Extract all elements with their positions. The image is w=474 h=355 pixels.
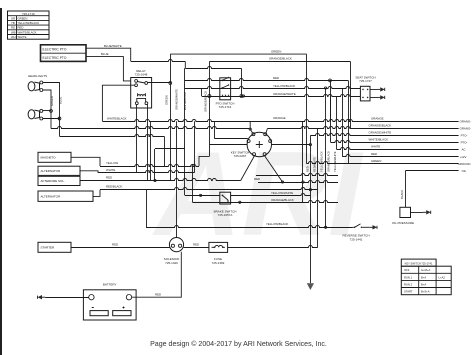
wire blue wire run [60, 135, 165, 137]
svg-text:725-0267: 725-0267 [234, 154, 247, 158]
wire orange/black drop [350, 61, 352, 128]
svg-text:B+A: B+A [421, 275, 426, 279]
battery [83, 290, 136, 320]
svg-text:ORANGE/BLACK: ORANGE/BLACK [271, 198, 294, 202]
svg-text:BLUE/WHITE: BLUE/WHITE [104, 44, 122, 48]
svg-text:725-1648: 725-1648 [135, 73, 148, 77]
wire pto left drop [209, 61, 211, 156]
svg-text:ORANGE: ORANGE [371, 116, 384, 120]
wire yellow/black wire [146, 226, 353, 228]
wire brake left v [192, 166, 194, 202]
connector seat conn b [377, 96, 380, 98]
wire v194 [194, 121, 196, 173]
wire bundle v317 [317, 129, 319, 248]
wire blue/white wire [86, 48, 131, 61]
node node pto right [242, 95, 244, 97]
svg-text:+12V: +12V [460, 155, 467, 159]
wire h4b wire [231, 194, 310, 196]
wire solenoid riser [176, 121, 178, 237]
oil pressure switch [400, 207, 411, 217]
svg-text:GREEN: GREEN [164, 95, 168, 105]
svg-text:YELLOW/BLACK: YELLOW/BLACK [18, 21, 40, 25]
wire v214 [214, 121, 216, 138]
wire bundle v348 [348, 80, 350, 163]
svg-text:ORANGE/BLACK: ORANGE/BLACK [203, 91, 207, 112]
wire z-drop [184, 61, 186, 68]
svg-text:L+A2: L+A2 [439, 275, 446, 279]
node node y80 [329, 79, 332, 82]
wire blue drop [164, 136, 166, 166]
wire h1 wire [256, 174, 338, 176]
svg-text:ORANG-: ORANG- [460, 127, 472, 131]
wire bundle v325 [325, 88, 327, 227]
svg-text:RED/BLACK: RED/BLACK [106, 184, 122, 188]
page border [0, 8, 2, 355]
wire blue wire [86, 57, 131, 81]
svg-text:YELLOW/WHITE: YELLOW/WHITE [333, 151, 337, 172]
wire alt2 redblack [93, 190, 100, 197]
wire green headlight wire [51, 127, 249, 129]
wire seat wire a [185, 87, 360, 89]
svg-text:GR: GR [11, 16, 15, 20]
node node relay out [169, 82, 172, 85]
svg-text:RUN 1: RUN 1 [404, 275, 413, 279]
wire red/black engine wire [100, 188, 318, 190]
node node h5 [239, 201, 241, 203]
svg-text:WHITE: WHITE [106, 168, 115, 172]
node node y88 [325, 87, 327, 89]
svg-text:GREEN: GREEN [18, 16, 28, 20]
wire key a wire [272, 144, 311, 146]
node node h2b [302, 181, 304, 183]
svg-text:RED: RED [305, 166, 309, 172]
wire relay left [102, 85, 134, 121]
svg-text:MAGNETO: MAGNETO [41, 156, 57, 160]
svg-text:RED: RED [106, 175, 112, 179]
wire wire y68 [185, 67, 241, 69]
wire fuse out wire [228, 246, 318, 248]
svg-text:725-1657A: 725-1657A [218, 213, 233, 217]
svg-text:RED: RED [254, 177, 260, 181]
wire solenoid to fuse [184, 247, 209, 249]
wire white/black right wire [331, 141, 459, 143]
svg-text:BLACK: BLACK [400, 190, 404, 199]
connector oil conn [423, 211, 426, 213]
node node key a [309, 144, 311, 146]
node junction green [50, 110, 53, 113]
wire wire y148 [155, 148, 185, 150]
afterfire solenoid [38, 176, 80, 185]
wire red right wire [343, 155, 459, 157]
svg-text:HEADLIGHTS: HEADLIGHTS [28, 74, 47, 78]
fuse F1 [209, 242, 228, 252]
wire green top wire [170, 53, 306, 55]
wire h2 wire [258, 181, 338, 183]
svg-text:ORANGE/WHITE: ORANGE/WHITE [369, 131, 392, 135]
headlight lamp [28, 81, 43, 92]
svg-text:YB: YB [11, 21, 15, 25]
relay K1 [131, 78, 152, 109]
wire ground drop [310, 145, 312, 284]
node node h3 [309, 189, 311, 191]
svg-text:BLUE: BLUE [58, 97, 62, 104]
svg-text:GREEN: GREEN [271, 50, 281, 54]
svg-text:WHITE/BLACK: WHITE/BLACK [369, 138, 389, 142]
svg-text:725-1716: 725-1716 [219, 105, 232, 109]
wire red wire [80, 179, 241, 181]
svg-text:YELLOW/BLACK: YELLOW/BLACK [273, 84, 295, 88]
connector reverse conn [369, 226, 372, 228]
wire v155 [154, 149, 156, 181]
wire battery pos wire [132, 252, 182, 298]
solenoid [169, 238, 183, 252]
svg-text:RED: RED [371, 152, 377, 156]
svg-text:RED: RED [18, 26, 24, 30]
connector battery gnd conn [42, 296, 45, 298]
node node reverse [325, 226, 327, 228]
wire v310 up [310, 136, 312, 145]
wire key g stub [250, 129, 252, 133]
svg-text:YELLOW/BLACK: YELLOW/BLACK [320, 151, 324, 172]
wire bundle v331 [330, 96, 332, 143]
wire bundle v303 [302, 121, 304, 202]
alternator 1 [38, 166, 80, 175]
svg-text:725-1369: 725-1369 [212, 261, 225, 265]
svg-text:ORANGE/BLACK: ORANGE/BLACK [369, 124, 392, 128]
wire headlight blue up [43, 83, 60, 137]
svg-text:RED: RED [273, 76, 279, 80]
svg-text:RED: RED [112, 242, 118, 246]
PTO switch S2 [220, 77, 231, 100]
wire yellow wire [100, 165, 199, 167]
svg-text:ORANGE/BLACK: ORANGE/BLACK [269, 57, 292, 61]
svg-text:725-1716: 725-1716 [22, 12, 35, 16]
svg-text:WHITE/BLACK: WHITE/BLACK [107, 116, 127, 120]
node node brake [200, 194, 202, 196]
svg-text:ORANGE: ORANGE [273, 116, 286, 120]
svg-text:BATTERY: BATTERY [103, 283, 117, 287]
connector seat conn a [377, 88, 380, 90]
wire vertical from relay node [170, 54, 172, 180]
wire lamp2 to blue [43, 118, 60, 120]
wire v146 [146, 190, 148, 228]
seat switch S4 [360, 86, 370, 101]
electric PTO connector [41, 45, 87, 62]
svg-text:RED/WHITE: RED/WHITE [312, 157, 316, 172]
svg-text:RED: RED [155, 292, 161, 296]
wire green drop [306, 54, 308, 164]
starter [38, 242, 71, 252]
svg-text:START: START [404, 290, 413, 294]
svg-text:ORANGE/BLACK: ORANGE/BLACK [327, 151, 331, 172]
legend table [8, 11, 50, 39]
svg-text:OIL: OIL [462, 169, 467, 173]
wire key b wire [266, 129, 267, 133]
wire v185 [184, 68, 186, 195]
wire oil out [411, 212, 424, 214]
svg-text:WB: WB [11, 30, 16, 34]
wire alt white [80, 171, 98, 173]
svg-text:WH: WH [11, 35, 16, 39]
svg-text:WHITE/BLACK: WHITE/BLACK [18, 30, 37, 34]
wire battery neg wire [45, 297, 88, 299]
wire key left wire2 [209, 144, 247, 146]
svg-text:RED: RED [193, 242, 199, 246]
svg-text:B+S+A: B+S+A [421, 290, 430, 294]
wire white/black orange long wire [102, 120, 458, 122]
svg-text:YELLOW/BLACK: YELLOW/BLACK [266, 222, 288, 226]
wire orange tee [249, 121, 251, 129]
svg-text:ORANG-: ORANG- [460, 119, 472, 123]
node node h2a [281, 181, 283, 183]
wire key a2 diagonal [264, 156, 282, 183]
svg-text:GROUND: GROUND [458, 162, 471, 166]
svg-text:725-1442: 725-1442 [350, 237, 363, 241]
wire orange/black mid wire [267, 127, 458, 129]
brake switch S3 [220, 192, 231, 204]
node junction blue [58, 117, 61, 120]
alternator 2 [38, 191, 93, 201]
svg-text:OIL PRESSURE: OIL PRESSURE [392, 221, 414, 225]
pto terminals [208, 95, 211, 98]
svg-text:GREEN: GREEN [50, 96, 54, 106]
wire black oil drop [405, 171, 407, 207]
wire relay coil drop1 [136, 105, 138, 173]
wire green right wire [307, 162, 459, 164]
svg-text:PTO-: PTO- [461, 141, 468, 145]
wire v151 [150, 121, 152, 180]
wire relay out [148, 82, 171, 84]
wire white wire [98, 171, 194, 173]
wire bundle v336 [336, 96, 338, 150]
svg-text:RUN 2: RUN 2 [404, 282, 413, 286]
svg-text:B+A: B+A [421, 282, 426, 286]
svg-text:YELLOW: YELLOW [106, 161, 118, 165]
wire white right wire [337, 148, 459, 150]
svg-text:AFTERFIRE SOL.: AFTERFIRE SOL. [41, 179, 66, 183]
svg-text:G+M+A: G+M+A [421, 268, 430, 272]
svg-text:Page design © 2004-2017 by ARI: Page design © 2004-2017 by ARI Network S… [150, 340, 327, 348]
magneto [38, 152, 71, 162]
svg-text:ARI: ARI [152, 127, 364, 261]
wire relay coil drop2 [147, 105, 149, 181]
node node red [154, 179, 156, 181]
wire bundle v342 [342, 88, 344, 157]
node node key g [249, 128, 251, 130]
svg-text:ORANGE/WHITE: ORANGE/WHITE [174, 89, 178, 110]
key switch S1 [247, 132, 272, 156]
reverse switch S5 [353, 224, 370, 228]
wire oil wire [405, 170, 458, 172]
wire blue/white top wire [131, 60, 186, 62]
wire v330 [330, 80, 332, 121]
wire headlight green up [43, 90, 51, 129]
wire v201 link [201, 88, 203, 96]
svg-text:ELECTRIC PTO: ELECTRIC PTO [43, 48, 67, 52]
wire seat out b [370, 97, 377, 99]
wire seat out a [370, 89, 377, 91]
wire yellow up [199, 156, 209, 166]
svg-text:725-1747: 725-1747 [359, 79, 372, 83]
wire seat wire b [202, 95, 361, 97]
svg-text:GREEN: GREEN [371, 159, 381, 163]
svg-text:ALTERNATOR: ALTERNATOR [41, 169, 62, 173]
svg-text:ORANGE/WHITE: ORANGE/WHITE [273, 92, 296, 96]
svg-text:AC: AC [462, 148, 466, 152]
wire h4a brake wire [185, 195, 220, 197]
wire wire y80 [185, 79, 348, 81]
wire starter red wire [71, 247, 170, 249]
key switch position table [401, 259, 451, 295]
wire lamp2 to green [43, 110, 51, 112]
wire orange/black top wire [210, 61, 351, 63]
svg-text:OFF: OFF [404, 268, 410, 272]
wire h5 wire [193, 201, 339, 203]
headlight lamp [28, 109, 43, 120]
svg-text:ELECTRIC PTO: ELECTRIC PTO [43, 56, 67, 60]
svg-text:WHITE: WHITE [371, 145, 380, 149]
svg-text:PTO-: PTO- [461, 134, 468, 138]
svg-text:YELLOW/WHITE: YELLOW/WHITE [271, 191, 293, 195]
wire key left wire1 [214, 138, 248, 140]
svg-text:ALTERNATOR: ALTERNATOR [41, 195, 62, 199]
wire magneto yellow [71, 157, 100, 166]
ground symbol [307, 283, 314, 290]
svg-text:WHITE/BLACK: WHITE/BLACK [183, 92, 187, 110]
svg-text:RD: RD [11, 26, 15, 30]
svg-text:725-1426: 725-1426 [165, 261, 178, 265]
svg-text:STARTER: STARTER [41, 246, 56, 250]
svg-text:BLUE: BLUE [101, 52, 109, 56]
svg-text:KEY SWITCH 725-1741: KEY SWITCH 725-1741 [405, 261, 433, 265]
wire v241 to pto [241, 68, 243, 96]
svg-text:WHITE: WHITE [18, 35, 27, 39]
wire orange/white wire [310, 134, 458, 136]
wire key s diagonal [241, 156, 255, 181]
